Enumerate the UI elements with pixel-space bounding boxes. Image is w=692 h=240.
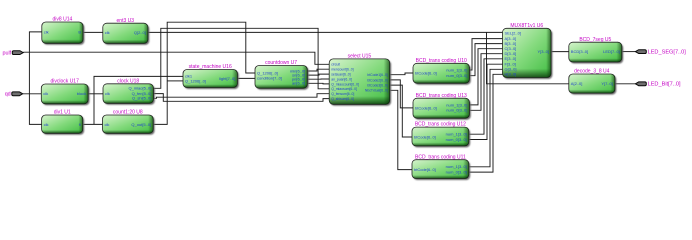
svg-text:A[2..0]: A[2..0] [571,81,583,86]
svg-text:btCode[6..0]: btCode[6..0] [415,70,437,75]
svg-text:num_0[3..0]: num_0[3..0] [446,137,467,142]
svg-text:BCD_trans coding U10: BCD_trans coding U10 [416,58,467,64]
svg-text:MUX8T1v1 U6: MUX8T1v1 U6 [510,23,543,29]
svg-text:btCode[6..0]: btCode[6..0] [414,167,436,172]
svg-text:BCD_trans coding U12: BCD_trans coding U12 [415,122,466,128]
svg-text:countdown U7: countdown U7 [265,60,297,66]
svg-text:light[7..0]: light[7..0] [219,76,235,81]
svg-text:block: block [77,91,86,96]
svg-text:Q_shisum[6..0]: Q_shisum[6..0] [331,97,354,101]
svg-text:BCD_7seg U5: BCD_7seg U5 [579,37,611,43]
svg-text:Q_miao[5..0]: Q_miao[5..0] [128,86,151,91]
svg-text:clock U18: clock U18 [117,78,139,84]
svg-text:NbcTxtual[6..0]: NbcTxtual[6..0] [365,89,388,93]
svg-text:qd: qd [5,92,11,98]
svg-text:Q_shi[5..0]: Q_shi[5..0] [132,96,151,101]
svg-text:clk: clk [105,30,110,35]
svg-text:Q_miaosum[6..0]: Q_miaosum[6..0] [331,87,357,91]
svg-text:condition[7..0]: condition[7..0] [257,76,282,81]
svg-text:num_1[3..0]: num_1[3..0] [446,164,467,169]
svg-text:BCD[3..0]: BCD[3..0] [571,49,588,54]
svg-text:mencount[6..0]: mencount[6..0] [331,68,353,72]
svg-text:Q_1206[..0]: Q_1206[..0] [185,78,206,83]
svg-text:num_1[3..0]: num_1[3..0] [446,67,467,72]
svg-text:setsuan[6..0]: setsuan[6..0] [331,73,350,77]
svg-text:clk: clk [105,122,110,127]
svg-text:clk: clk [44,29,49,34]
svg-text:clk: clk [105,91,110,96]
svg-text:E[3..0]: E[3..0] [505,56,517,61]
svg-text:Q_miaocount[6..0]: Q_miaocount[6..0] [331,82,359,86]
svg-text:select U15: select U15 [348,54,372,60]
svg-text:btCode[6..0]: btCode[6..0] [414,134,436,139]
svg-text:LED[7..0]: LED[7..0] [603,49,620,54]
svg-text:circuit: circuit [331,63,340,67]
svg-text:clk: clk [44,122,49,127]
svg-text:num_0[3..0]: num_0[3..0] [446,108,467,113]
svg-text:div1 U1: div1 U1 [54,110,71,116]
svg-text:pulf: pulf [2,50,11,56]
svg-text:num_0[3..0]: num_0[3..0] [446,170,467,175]
svg-text:H[3..0]: H[3..0] [505,72,517,77]
svg-text:LED_SEG[7..0]: LED_SEG[7..0] [648,49,687,55]
svg-text:BCD_trans coding U13: BCD_trans coding U13 [416,93,467,99]
svg-text:SEL[2..0]: SEL[2..0] [505,31,521,36]
svg-text:clk: clk [43,91,48,96]
svg-text:decode_3_8 U4: decode_3_8 U4 [574,69,610,75]
svg-text:Q_fensum[6..0]: Q_fensum[6..0] [331,92,354,96]
svg-text:count1:20 U8: count1:20 U8 [113,110,143,116]
svg-text:Y[3..0]: Y[3..0] [537,49,549,54]
svg-text:an[6..0]: an[6..0] [292,81,305,86]
svg-text:Y[7..0]: Y[7..0] [601,81,613,86]
svg-text:btCode2[6..0]: btCode2[6..0] [367,78,387,82]
svg-text:state_machine U16: state_machine U16 [189,64,232,70]
svg-text:btCode3[6..0]: btCode3[6..0] [367,84,387,88]
svg-text:Q[2..0]: Q[2..0] [134,30,146,35]
svg-text:num_1[3..0]: num_1[3..0] [446,132,467,137]
svg-text:fl: fl [79,122,81,127]
svg-text:an_puan[6..0]: an_puan[6..0] [331,77,352,81]
svg-text:Q_out[5..0]: Q_out[5..0] [131,122,151,127]
svg-text:BCD_trans coding U11: BCD_trans coding U11 [415,154,466,160]
svg-text:ent3 U3: ent3 U3 [117,18,135,24]
svg-text:div8 U14: div8 U14 [53,17,73,23]
svg-text:LED_Bit[7..0]: LED_Bit[7..0] [648,82,681,88]
svg-text:divclock U17: divclock U17 [51,79,80,85]
svg-text:B: B [78,29,81,34]
svg-text:btCode1[6..0]: btCode1[6..0] [367,73,387,77]
svg-text:num_1[3..0]: num_1[3..0] [446,102,467,107]
svg-text:num_0[3..0]: num_0[3..0] [446,73,467,78]
svg-text:btCode[6..0]: btCode[6..0] [415,105,437,110]
